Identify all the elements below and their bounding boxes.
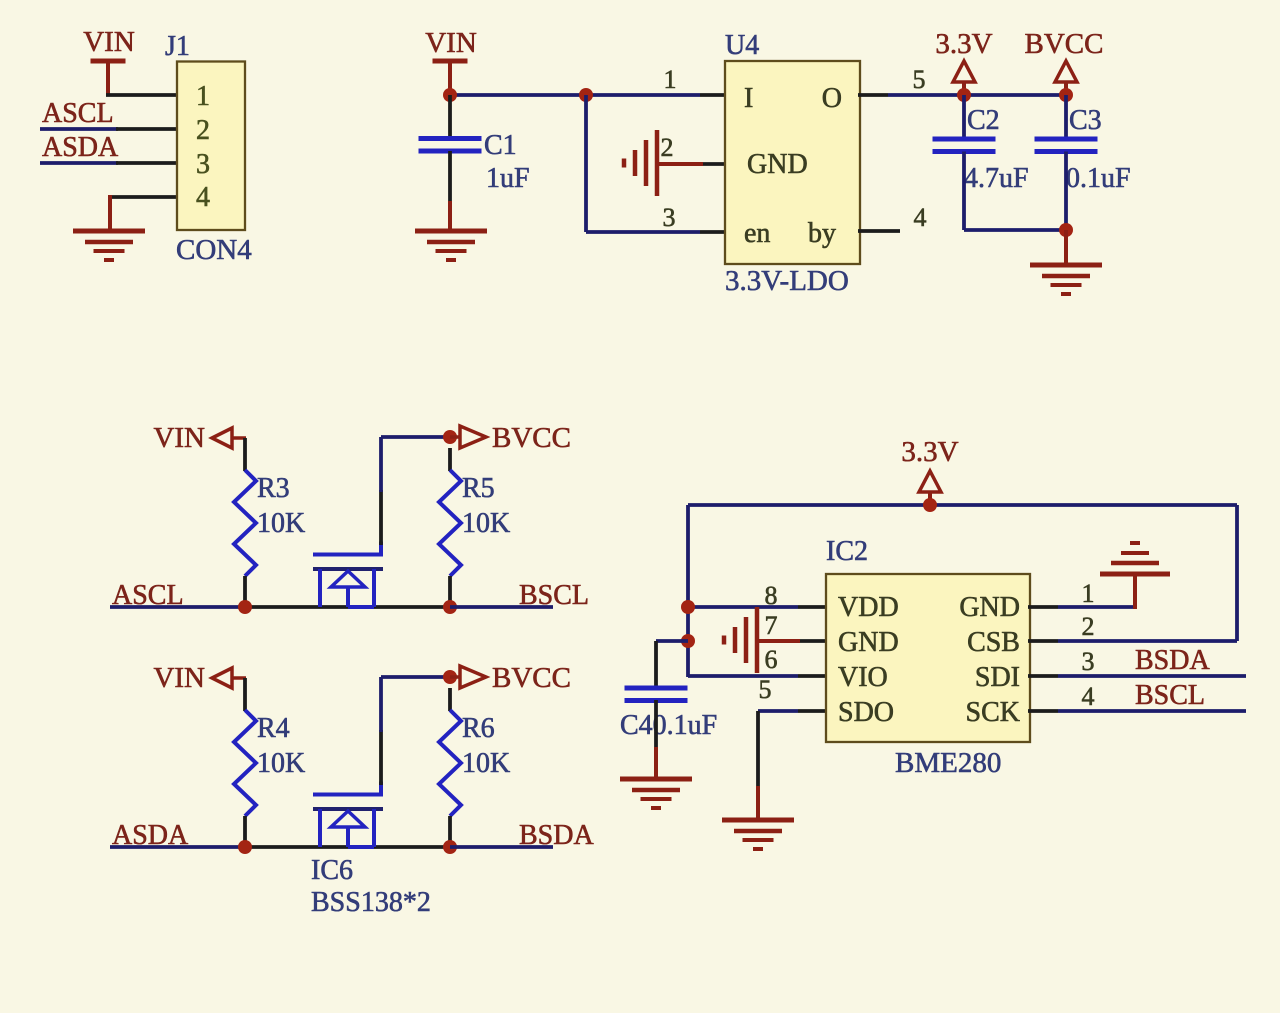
wire SDO pin 5 horizontal: [758, 709, 798, 713]
svg-text:CSB: CSB: [967, 627, 1020, 658]
svg-text:10K: 10K: [257, 748, 305, 779]
svg-text:SDO: SDO: [838, 697, 894, 728]
svg-text:BVCC: BVCC: [492, 422, 571, 454]
wire SDI / BSDA net: [1058, 674, 1246, 678]
junction BSDA/R6: [443, 840, 457, 854]
wire CSB riser: [1235, 505, 1239, 641]
wire VDD pin 8: [688, 605, 798, 609]
wire SCK / BSCL net: [1058, 709, 1246, 713]
port BVCC (shifter SDA): [460, 666, 486, 688]
ground inverted (IC2 pin 1): [1100, 543, 1170, 574]
wire to ground (C2/C3): [1064, 230, 1068, 265]
wire 3.3V stem (BME280): [928, 492, 932, 505]
wire R6 bottom lead: [448, 816, 452, 848]
wire ground stem (IC2 pin 1): [1133, 574, 1137, 609]
wire IC2 pin 1 to ground: [1058, 605, 1135, 609]
wire ASCL to pin 2: [116, 127, 178, 131]
svg-text:R3: R3: [257, 473, 290, 504]
wire stub IC2 pin 5: [798, 709, 828, 713]
wire down to R3 (SCL): [243, 438, 247, 471]
svg-text:7: 7: [765, 611, 778, 640]
port VIN (shifter SCL): [212, 428, 232, 448]
svg-text:BSS138*2: BSS138*2: [311, 887, 431, 918]
wire gate riser black (SCL): [379, 490, 383, 545]
wire ASDA net: [110, 845, 246, 849]
wire VIN rail to U4 pin 1: [448, 93, 700, 97]
svg-text:1: 1: [664, 65, 677, 94]
ground (SDO): [722, 820, 794, 849]
wire BVCC port stub (SDA): [450, 675, 460, 679]
svg-text:U4: U4: [725, 30, 759, 61]
svg-text:O: O: [822, 83, 842, 114]
junction BVCC/C3: [1059, 88, 1073, 102]
junction 3.3V rail: [923, 498, 937, 512]
wire C4 branch horizontal: [656, 639, 688, 643]
resistor R4: [234, 710, 256, 816]
wire SDO vertical: [756, 711, 760, 786]
wire en vertical: [584, 95, 588, 232]
wire stub IC2 pin 2: [1028, 639, 1058, 643]
wire VIN stem (LDO): [448, 61, 452, 95]
wire stub into U4 pin 1: [700, 93, 727, 97]
svg-text:GND: GND: [959, 592, 1020, 623]
wire C4 to ground: [654, 747, 658, 779]
ground (C1): [415, 231, 487, 260]
power symbol VIN bar (LDO): [433, 59, 468, 64]
ground (C2/C3): [1030, 265, 1102, 294]
svg-text:2: 2: [196, 115, 210, 146]
wire 3.3V rail (BME280): [688, 503, 1237, 507]
svg-text:10K: 10K: [462, 748, 510, 779]
svg-text:VDD: VDD: [838, 592, 899, 623]
svg-text:5: 5: [913, 65, 926, 94]
svg-text:10K: 10K: [257, 508, 305, 539]
svg-text:3: 3: [1082, 647, 1095, 676]
wire gate top to BVCC (SCL): [381, 435, 450, 439]
wire stub U4 pin 4 (by): [858, 229, 900, 233]
wire ASCL net (blue segment): [40, 127, 118, 131]
svg-text:BVCC: BVCC: [1025, 28, 1104, 60]
wire C1 top lead: [448, 95, 452, 138]
svg-text:8: 8: [765, 581, 778, 610]
svg-text:2: 2: [1082, 612, 1095, 641]
svg-text:4.7uF: 4.7uF: [964, 163, 1029, 194]
svg-text:BSCL: BSCL: [1135, 680, 1205, 711]
svg-text:VIN: VIN: [153, 422, 205, 454]
junction BSCL/R5: [443, 600, 457, 614]
wire stub IC2 pin 7: [800, 639, 828, 643]
port VIN (shifter SDA): [212, 668, 232, 688]
svg-text:IC2: IC2: [826, 536, 868, 567]
wire stub IC2 pin 8: [798, 605, 828, 609]
svg-text:GND: GND: [838, 627, 899, 658]
signal ground (U4 pin 2): [624, 130, 657, 196]
junction ASDA/R4: [238, 840, 252, 854]
capacitor C3: [1035, 139, 1098, 152]
svg-text:5: 5: [759, 675, 772, 704]
resistor R3: [234, 470, 256, 576]
svg-text:3: 3: [663, 203, 676, 232]
wire VIN port to corner (SCL): [232, 436, 246, 440]
svg-text:I: I: [744, 83, 753, 114]
wire ASCL net: [110, 605, 246, 609]
wire stub into U4 pin 3: [700, 230, 727, 234]
wire down to R4 (SDA): [243, 678, 247, 711]
regulator U4 body: [725, 61, 860, 264]
wire BVCC stem (top): [1064, 82, 1068, 95]
wire VIO pin 6: [688, 674, 798, 678]
transistor BSS138 (SDA half of IC6): [313, 782, 383, 848]
wire CSB to rail: [1058, 639, 1237, 643]
svg-text:3.3V: 3.3V: [935, 28, 992, 60]
svg-text:ASDA: ASDA: [42, 132, 119, 163]
svg-text:4: 4: [196, 182, 210, 213]
wire C1 to ground: [448, 201, 452, 231]
ground (C4): [620, 779, 692, 808]
wire pin 4 to ground horizontal: [110, 195, 178, 199]
wire stub U4 pin 5: [858, 93, 888, 97]
svg-text:BVCC: BVCC: [492, 662, 571, 694]
svg-text:VIO: VIO: [838, 662, 888, 693]
wire VIN to pin 1: [106, 93, 178, 97]
svg-text:3: 3: [196, 149, 210, 180]
junction BVCC/R5: [443, 430, 457, 444]
wire BSDA net: [450, 845, 553, 849]
junction C4 branch: [681, 634, 695, 648]
svg-text:R6: R6: [462, 713, 495, 744]
svg-text:BSCL: BSCL: [519, 580, 589, 611]
junction en branch: [579, 88, 593, 102]
svg-text:C3: C3: [1069, 105, 1102, 136]
wire ASDA net (blue segment): [40, 161, 118, 165]
power symbol BVCC triangle (top): [1055, 61, 1077, 82]
wire stub U4 pin 2: [703, 162, 727, 166]
wire ASDA to pin 3: [116, 161, 178, 165]
junction BVCC/R6: [443, 670, 457, 684]
capacitor C2: [933, 139, 996, 152]
junction C2/C3 ground: [1059, 223, 1073, 237]
capacitor C4: [625, 688, 688, 701]
wire C2 bottom lead: [962, 152, 966, 231]
wire U4 pin 2 to ground: [657, 162, 703, 166]
wire en horizontal: [586, 230, 700, 234]
svg-text:BME280: BME280: [895, 747, 1001, 779]
wire gate riser navy (SDA): [379, 677, 383, 732]
transistor BSS138 (SCL half of IC6): [313, 542, 383, 608]
svg-text:GND: GND: [747, 149, 808, 180]
svg-text:0.1uF: 0.1uF: [1066, 163, 1131, 194]
svg-text:10K: 10K: [462, 508, 510, 539]
svg-text:3.3V-LDO: 3.3V-LDO: [725, 265, 849, 297]
port BVCC (shifter SCL): [460, 426, 486, 448]
svg-text:J1: J1: [165, 31, 190, 62]
wire C2 to C3 bottom: [964, 228, 1066, 232]
wire pin 4 ground stem: [108, 195, 112, 231]
wire stub IC2 pin 1: [1028, 605, 1058, 609]
wire down to R5: [448, 448, 452, 471]
svg-text:C1: C1: [484, 130, 517, 161]
power symbol 3.3V triangle (BME280): [919, 471, 941, 492]
svg-text:ASCL: ASCL: [42, 98, 114, 129]
svg-text:1uF: 1uF: [486, 163, 530, 194]
wire SDO to ground: [756, 786, 760, 820]
svg-text:R4: R4: [257, 713, 290, 744]
capacitor C1: [419, 139, 482, 152]
resistor R5: [439, 470, 461, 576]
svg-text:C2: C2: [967, 105, 1000, 136]
svg-text:R5: R5: [462, 473, 495, 504]
wire C3 bottom lead: [1064, 152, 1068, 231]
wire C3 top lead: [1064, 95, 1068, 139]
svg-text:3.3V: 3.3V: [901, 436, 958, 468]
svg-text:1: 1: [196, 81, 210, 112]
junction VIN/C1: [443, 88, 457, 102]
svg-text:IC6: IC6: [311, 855, 353, 886]
wire down to R6: [448, 688, 452, 711]
svg-text:4: 4: [914, 203, 927, 232]
svg-text:SCK: SCK: [966, 697, 1020, 728]
wire gate riser black (SDA): [379, 730, 383, 785]
wire stub IC2 pin 3: [1028, 674, 1058, 678]
junction ASCL/R3: [238, 600, 252, 614]
wire ASCL to mosfet: [245, 605, 450, 609]
wire C1 bottom lead: [448, 151, 452, 201]
svg-text:SDI: SDI: [975, 662, 1020, 693]
wire stub IC2 pin 4: [1028, 709, 1058, 713]
wire BVCC port stub (SCL): [450, 435, 460, 439]
sensor IC2 body: [826, 574, 1030, 742]
wire VIN port to corner (SDA): [232, 676, 246, 680]
power symbol 3.3V triangle (top): [953, 61, 975, 82]
junction pin 8 / rail: [681, 600, 695, 614]
wire R5 bottom lead: [448, 576, 452, 608]
wire ASDA to mosfet: [245, 845, 450, 849]
svg-text:VIN: VIN: [83, 26, 135, 58]
svg-text:2: 2: [661, 133, 674, 162]
wire gate top to BVCC (SDA): [381, 675, 450, 679]
svg-text:VIN: VIN: [153, 662, 205, 694]
wire 3.3V stem (top): [962, 82, 966, 95]
svg-text:BSDA: BSDA: [519, 820, 594, 851]
svg-text:C40.1uF: C40.1uF: [620, 710, 717, 741]
signal ground (IC2 pin 7): [724, 607, 757, 673]
wire BSCL net: [450, 605, 553, 609]
wire C4 top lead: [654, 641, 658, 688]
wire R3 bottom lead: [243, 576, 247, 608]
wire U4 pin 5 to BVCC: [888, 93, 1066, 97]
connector J1 body: [177, 62, 245, 231]
resistor R6: [439, 710, 461, 816]
svg-text:by: by: [808, 218, 836, 249]
wire C2 top lead: [962, 95, 966, 139]
junction 3.3V/C2: [957, 88, 971, 102]
svg-text:6: 6: [765, 645, 778, 674]
wire R4 bottom lead: [243, 816, 247, 848]
power symbol VIN bar (J1): [91, 59, 126, 64]
svg-text:en: en: [744, 218, 770, 249]
wire stub IC2 pin 6: [798, 674, 828, 678]
svg-text:VIN: VIN: [425, 27, 477, 59]
ground (J1 pin 4): [73, 231, 145, 260]
wire VIN stem (J1): [106, 61, 110, 95]
wire gate riser navy (SCL): [379, 437, 383, 492]
svg-text:BSDA: BSDA: [1135, 645, 1210, 676]
svg-text:4: 4: [1082, 682, 1095, 711]
svg-text:1: 1: [1082, 579, 1095, 608]
wire IC2 pin 7 to ground: [757, 639, 800, 643]
wire C4 bottom lead: [654, 700, 658, 747]
svg-text:CON4: CON4: [176, 234, 252, 266]
wire left rail vertical: [686, 505, 690, 677]
